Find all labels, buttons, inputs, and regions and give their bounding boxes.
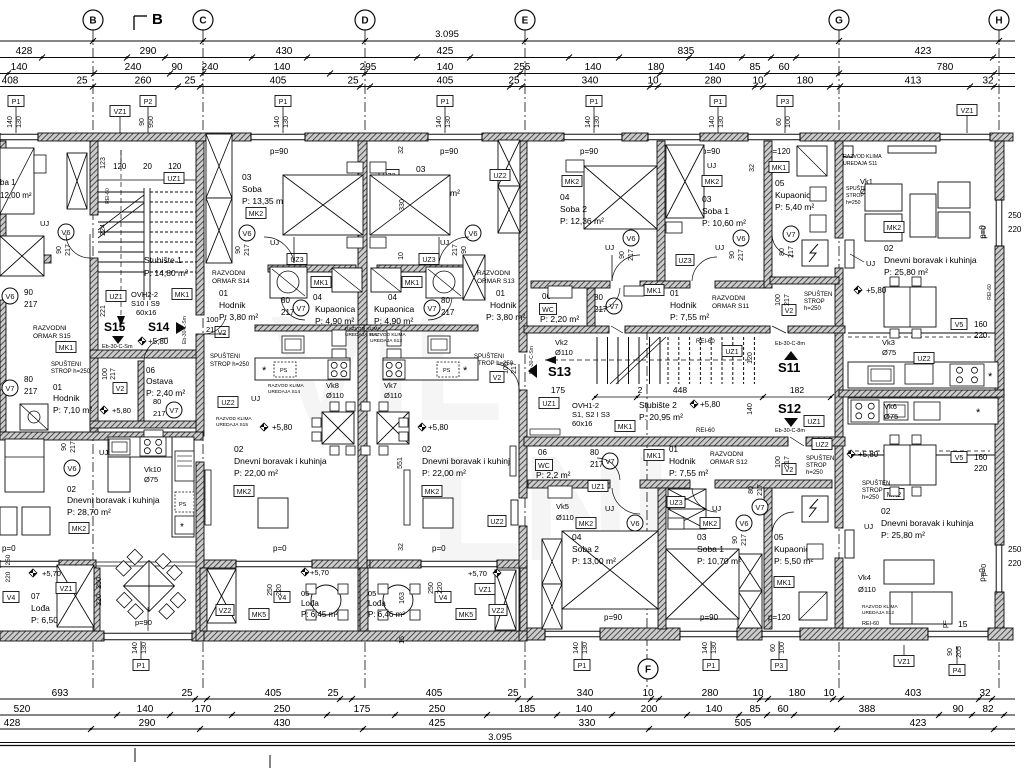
svg-text:MK2: MK2 [249, 211, 264, 218]
svg-text:100: 100 [785, 116, 792, 128]
svg-text:UZ3: UZ3 [678, 258, 691, 265]
svg-text:06: 06 [538, 448, 547, 457]
svg-text:P: 28,70 m²: P: 28,70 m² [67, 507, 111, 517]
svg-text:90: 90 [56, 246, 63, 254]
svg-text:REI-60: REI-60 [987, 284, 993, 300]
svg-text:25: 25 [347, 76, 359, 87]
svg-text:120: 120 [747, 352, 754, 364]
svg-text:Stubište 2: Stubište 2 [639, 400, 677, 410]
svg-text:UJ: UJ [605, 243, 614, 252]
svg-text:UREDAJA S13: UREDAJA S13 [370, 338, 402, 344]
svg-text:388: 388 [859, 704, 876, 715]
svg-text:SPUŠTENI: SPUŠTENI [474, 353, 504, 360]
svg-text:p=90: p=90 [580, 147, 599, 156]
svg-text:425: 425 [437, 46, 454, 57]
svg-text:SPUŠTEN: SPUŠTEN [806, 455, 834, 462]
svg-text:140: 140 [709, 62, 726, 73]
svg-text:P: 14,80 m²: P: 14,80 m² [144, 268, 188, 278]
svg-text:P: 25,80 m²: P: 25,80 m² [881, 530, 925, 540]
svg-text:P: 6,45 m²: P: 6,45 m² [301, 610, 338, 619]
svg-text:UJ: UJ [864, 522, 873, 531]
svg-text:140: 140 [137, 704, 154, 715]
svg-text:UZ2: UZ2 [490, 519, 503, 526]
svg-text:p=120: p=120 [768, 613, 791, 622]
svg-text:03: 03 [697, 532, 707, 542]
svg-text:STROP: STROP [806, 463, 827, 469]
svg-text:130: 130 [141, 642, 148, 654]
svg-text:STROP h=250: STROP h=250 [474, 361, 514, 367]
svg-text:240: 240 [202, 62, 219, 73]
svg-text:02: 02 [884, 243, 894, 253]
svg-text:P: 4,90 m²: P: 4,90 m² [374, 316, 413, 326]
svg-text:ORMAR S15: ORMAR S15 [33, 333, 71, 340]
svg-text:p=0: p=0 [432, 544, 446, 553]
svg-text:P: 6,50: P: 6,50 [31, 615, 58, 625]
svg-text:h=250: h=250 [846, 200, 861, 206]
svg-text:V5: V5 [955, 455, 964, 462]
svg-text:Kupaonica: Kupaonica [775, 190, 815, 200]
svg-text:403: 403 [905, 688, 922, 699]
svg-text:140: 140 [747, 403, 754, 415]
svg-text:MK1: MK1 [314, 280, 329, 287]
svg-text:Dnevni boravak i kuhinja: Dnevni boravak i kuhinja [881, 518, 974, 528]
svg-text:p=0: p=0 [979, 226, 988, 239]
svg-text:217: 217 [244, 244, 251, 256]
svg-text:P1: P1 [137, 663, 146, 670]
svg-text:10: 10 [823, 688, 835, 699]
svg-text:185: 185 [519, 704, 536, 715]
svg-text:120: 120 [168, 162, 182, 171]
svg-text:Soba 1: Soba 1 [697, 544, 724, 554]
svg-text:01: 01 [670, 289, 679, 298]
svg-text:250: 250 [428, 582, 435, 594]
svg-text:80: 80 [24, 375, 33, 384]
svg-text:+5,70: +5,70 [310, 568, 329, 577]
svg-text:140: 140 [709, 116, 716, 128]
svg-text:P: 7,55 m²: P: 7,55 m² [669, 468, 708, 478]
svg-text:430: 430 [274, 718, 291, 729]
svg-text:Eb-30-C-8m: Eb-30-C-8m [775, 428, 805, 434]
svg-text:15: 15 [958, 619, 968, 629]
svg-text:20: 20 [143, 162, 152, 171]
svg-text:OVH2-2: OVH2-2 [131, 290, 158, 299]
svg-text:01: 01 [669, 445, 678, 454]
svg-text:100: 100 [779, 642, 786, 654]
svg-text:VZ1: VZ1 [114, 109, 127, 116]
svg-text:UJ: UJ [715, 243, 724, 252]
svg-text:p=90: p=90 [440, 147, 459, 156]
svg-text:80: 80 [441, 296, 450, 305]
svg-text:25: 25 [184, 76, 196, 87]
svg-text:UREDAJA S15: UREDAJA S15 [216, 422, 248, 428]
svg-text:290: 290 [139, 718, 156, 729]
svg-text:S14: S14 [148, 320, 170, 334]
svg-text:200: 200 [641, 704, 658, 715]
svg-text:Hodnik: Hodnik [490, 300, 517, 310]
svg-text:P1: P1 [578, 663, 587, 670]
svg-text:STROP: STROP [862, 488, 883, 494]
svg-text:RAZVOD KLIMA: RAZVOD KLIMA [862, 604, 899, 610]
svg-text:P: 13,35 m²: P: 13,35 m² [242, 196, 286, 206]
svg-text:UZ1: UZ1 [167, 176, 180, 183]
svg-text:405: 405 [437, 76, 454, 87]
svg-text:Vk4: Vk4 [858, 573, 871, 582]
svg-text:60: 60 [777, 704, 789, 715]
svg-text:B: B [89, 16, 96, 27]
svg-text:Ø75: Ø75 [884, 412, 898, 421]
svg-text:VZ1: VZ1 [898, 659, 911, 666]
svg-text:STROP: STROP [846, 193, 864, 199]
svg-text:G: G [835, 16, 843, 27]
svg-text:VZ2: VZ2 [492, 608, 505, 615]
svg-text:240: 240 [125, 62, 142, 73]
svg-text:+5,70: +5,70 [42, 569, 61, 578]
svg-text:90: 90 [24, 288, 33, 297]
svg-text:340: 340 [577, 688, 594, 699]
svg-text:V4: V4 [439, 595, 448, 602]
svg-text:90: 90 [61, 443, 68, 451]
svg-text:P1: P1 [279, 99, 288, 106]
svg-text:217: 217 [590, 460, 604, 469]
svg-text:V4: V4 [7, 595, 16, 602]
svg-text:Ø75: Ø75 [882, 348, 896, 357]
svg-text:220: 220 [1008, 225, 1022, 234]
svg-text:V2: V2 [116, 386, 125, 393]
svg-text:60: 60 [776, 118, 783, 126]
svg-text:250: 250 [5, 554, 12, 565]
svg-text:413: 413 [905, 76, 922, 87]
svg-text:REI-60: REI-60 [105, 188, 111, 204]
svg-text:MK2: MK2 [565, 179, 580, 186]
svg-text:140: 140 [436, 116, 443, 128]
svg-text:280: 280 [705, 76, 722, 87]
svg-text:90: 90 [952, 704, 964, 715]
svg-text:UREDAJA S12: UREDAJA S12 [862, 610, 894, 616]
svg-text:130: 130 [582, 642, 589, 654]
svg-text:p=: p= [942, 620, 949, 628]
svg-text:V7: V7 [296, 304, 305, 313]
svg-text:140: 140 [437, 62, 454, 73]
svg-text:220: 220 [1008, 559, 1022, 568]
svg-text:Vk2: Vk2 [555, 338, 568, 347]
svg-text:217: 217 [70, 441, 77, 453]
svg-text:h=250: h=250 [804, 306, 822, 312]
svg-text:p=0: p=0 [979, 564, 988, 577]
svg-text:220: 220 [974, 331, 988, 340]
svg-text:Hodnik: Hodnik [219, 300, 246, 310]
svg-text:140: 140 [132, 642, 139, 654]
svg-text:Dnevni boravak i kuhinja: Dnevni boravak i kuhinja [422, 456, 515, 466]
svg-text:VZ2: VZ2 [219, 608, 232, 615]
svg-text:P2: P2 [144, 99, 153, 106]
svg-text:V6: V6 [5, 292, 14, 301]
svg-text:224: 224 [100, 224, 107, 236]
svg-text:90: 90 [235, 246, 242, 254]
svg-text:ORMAR S14: ORMAR S14 [212, 278, 250, 285]
svg-text:Kupaonica: Kupaonica [315, 304, 355, 314]
svg-text:05: 05 [368, 589, 376, 598]
svg-text:250: 250 [429, 704, 446, 715]
svg-text:MK1: MK1 [175, 292, 190, 299]
svg-text:217: 217 [153, 409, 166, 418]
svg-text:90: 90 [729, 251, 736, 259]
svg-text:S11: S11 [778, 360, 800, 375]
svg-text:P: 6,46 m²: P: 6,46 m² [368, 610, 405, 619]
svg-text:MK1: MK1 [618, 424, 633, 431]
svg-text:UJ: UJ [99, 448, 108, 457]
svg-text:Vk7: Vk7 [384, 381, 397, 390]
svg-text:UJ: UJ [707, 161, 716, 170]
svg-text:130: 130 [283, 116, 290, 128]
svg-text:P: 5,40 m²: P: 5,40 m² [775, 202, 814, 212]
svg-text:80: 80 [153, 397, 161, 406]
svg-text:2: 2 [638, 385, 643, 395]
svg-text:S13: S13 [548, 364, 571, 379]
svg-text:520: 520 [14, 704, 31, 715]
svg-text:Dnevni boravak i kuhinja: Dnevni boravak i kuhinja [234, 456, 327, 466]
svg-text:250: 250 [267, 584, 274, 596]
svg-text:120: 120 [113, 162, 127, 171]
svg-text:250: 250 [1008, 211, 1022, 220]
svg-text:V7: V7 [786, 230, 795, 239]
svg-text:RAZVOD KLIMA: RAZVOD KLIMA [268, 383, 305, 389]
svg-text:+5,80: +5,80 [272, 423, 293, 432]
svg-text:10: 10 [398, 252, 405, 260]
svg-text:100: 100 [206, 315, 219, 324]
svg-text:217: 217 [24, 387, 38, 396]
svg-text:220: 220 [96, 594, 103, 606]
svg-text:UJ: UJ [605, 504, 614, 513]
svg-text:E: E [522, 16, 529, 27]
svg-text:Soba 1: Soba 1 [702, 206, 729, 216]
svg-text:330: 330 [399, 199, 406, 211]
svg-text:25: 25 [181, 688, 193, 699]
svg-text:02: 02 [234, 444, 244, 454]
svg-text:140: 140 [274, 62, 291, 73]
svg-text:60x16: 60x16 [136, 308, 156, 317]
svg-text:VZ1: VZ1 [479, 587, 492, 594]
svg-text:130: 130 [445, 116, 452, 128]
svg-text:PS: PS [443, 368, 451, 374]
svg-text:MK2: MK2 [72, 526, 87, 533]
svg-text:H: H [995, 16, 1002, 27]
svg-text:100: 100 [775, 294, 782, 306]
svg-text:04: 04 [313, 293, 322, 302]
svg-text:Soba: Soba [242, 184, 262, 194]
svg-text:60x16: 60x16 [572, 419, 592, 428]
svg-text:MK2: MK2 [237, 489, 252, 496]
svg-text:P: 20,95 m²: P: 20,95 m² [639, 412, 683, 422]
svg-text:140: 140 [274, 116, 281, 128]
svg-text:p=0: p=0 [2, 544, 16, 553]
svg-text:P: 3,80 m²: P: 3,80 m² [486, 312, 525, 322]
svg-text:02: 02 [422, 444, 432, 454]
svg-text:90: 90 [947, 648, 954, 656]
svg-text:Vk3: Vk3 [882, 338, 895, 347]
svg-text:05: 05 [774, 532, 784, 542]
svg-text:Vk10: Vk10 [144, 465, 161, 474]
svg-text:P: 13,00 m²: P: 13,00 m² [572, 556, 616, 566]
svg-text:04: 04 [388, 293, 397, 302]
svg-text:Hodnik: Hodnik [53, 393, 80, 403]
svg-text:MK2: MK2 [887, 225, 902, 232]
svg-text:P3: P3 [775, 663, 784, 670]
svg-text:ORMAR S12: ORMAR S12 [710, 459, 748, 466]
svg-text:UZ1: UZ1 [807, 419, 820, 426]
svg-text:32: 32 [398, 543, 405, 551]
svg-text:25: 25 [507, 688, 519, 699]
svg-text:+5,80: +5,80 [112, 406, 131, 415]
svg-text:V7: V7 [5, 384, 14, 393]
svg-text:130: 130 [718, 116, 725, 128]
svg-text:32: 32 [749, 164, 756, 172]
svg-text:S15: S15 [104, 320, 126, 334]
svg-text:P1: P1 [12, 99, 21, 106]
svg-text:Eb-30-C-Sm: Eb-30-C-Sm [182, 316, 188, 344]
svg-text:P: 12,36 m²: P: 12,36 m² [560, 216, 604, 226]
svg-text:Soba 2: Soba 2 [572, 544, 599, 554]
svg-text:+5,80: +5,80 [428, 423, 449, 432]
svg-text:220: 220 [276, 584, 283, 596]
svg-text:Kupaonica: Kupaonica [374, 304, 414, 314]
svg-text:MK1: MK1 [777, 580, 792, 587]
svg-text:82: 82 [982, 704, 994, 715]
svg-text:03: 03 [242, 172, 252, 182]
svg-text:h=250: h=250 [806, 470, 824, 476]
svg-text:90: 90 [171, 62, 183, 73]
svg-text:250: 250 [1008, 545, 1022, 554]
svg-text:140: 140 [706, 704, 723, 715]
svg-text:221: 221 [100, 305, 107, 317]
svg-text:P1: P1 [441, 99, 450, 106]
svg-text:80: 80 [590, 448, 599, 457]
svg-text:*: * [180, 522, 184, 533]
svg-text:+5,80: +5,80 [866, 286, 887, 295]
svg-text:V6: V6 [736, 234, 745, 243]
svg-text:Ostava: Ostava [146, 376, 173, 386]
svg-text:P4: P4 [953, 668, 962, 675]
svg-text:175: 175 [354, 704, 371, 715]
svg-text:Soba 2: Soba 2 [560, 204, 587, 214]
svg-text:140: 140 [11, 62, 28, 73]
svg-text:UZ3: UZ3 [422, 257, 435, 264]
svg-text:130: 130 [594, 116, 601, 128]
svg-text:295: 295 [360, 62, 377, 73]
svg-text:SPUŠTEN: SPUŠTEN [862, 480, 890, 487]
svg-text:ORMAR S13: ORMAR S13 [477, 278, 515, 285]
svg-text:3.095: 3.095 [435, 29, 459, 40]
svg-text:01: 01 [53, 383, 62, 392]
svg-text:RAZVOD KLIMA: RAZVOD KLIMA [216, 416, 253, 422]
svg-text:ORMAR S11: ORMAR S11 [712, 303, 749, 310]
svg-text:MK2: MK2 [579, 521, 594, 528]
svg-text:Ø110: Ø110 [858, 585, 876, 594]
svg-text:217: 217 [784, 456, 791, 468]
svg-text:P1: P1 [714, 99, 723, 106]
svg-text:Dnevni boravak i kuhinja: Dnevni boravak i kuhinja [884, 255, 977, 265]
svg-text:25: 25 [76, 76, 88, 87]
svg-text:VZ1: VZ1 [60, 586, 73, 593]
svg-text:Vk5: Vk5 [556, 502, 569, 511]
svg-text:Ø110: Ø110 [555, 348, 573, 357]
svg-text:Vk6: Vk6 [884, 402, 897, 411]
svg-text:05: 05 [301, 589, 309, 598]
svg-text:80: 80 [748, 486, 755, 494]
svg-text:217: 217 [110, 368, 117, 380]
svg-text:STROP h=250: STROP h=250 [210, 362, 250, 368]
svg-text:100: 100 [102, 368, 109, 380]
svg-text:Lođa: Lođa [368, 599, 386, 608]
svg-text:MK5: MK5 [252, 612, 267, 619]
svg-text:217: 217 [65, 244, 72, 256]
svg-text:P: 22,00 m²: P: 22,00 m² [234, 468, 278, 478]
svg-text:290: 290 [140, 46, 157, 57]
svg-text:S1, S2 I S3: S1, S2 I S3 [572, 410, 610, 419]
svg-text:330: 330 [579, 718, 596, 729]
svg-text:*: * [463, 365, 468, 377]
svg-text:RAZVOD KLIMA: RAZVOD KLIMA [370, 332, 407, 338]
svg-text:90: 90 [732, 536, 739, 544]
svg-text:V7: V7 [427, 304, 436, 313]
svg-text:V6: V6 [67, 464, 76, 473]
svg-text:182: 182 [790, 385, 804, 395]
svg-text:p=90: p=90 [135, 618, 152, 627]
svg-text:180: 180 [797, 76, 814, 87]
svg-text:405: 405 [426, 688, 443, 699]
svg-text:h=250: h=250 [862, 495, 880, 501]
svg-text:90: 90 [139, 118, 146, 126]
svg-text:60: 60 [770, 644, 777, 652]
svg-text:SPUŠTENI: SPUŠTENI [51, 361, 81, 368]
svg-text:10: 10 [752, 76, 764, 87]
svg-text:V7: V7 [609, 302, 618, 311]
svg-text:REI-60: REI-60 [696, 339, 715, 345]
svg-text:Ø110: Ø110 [384, 391, 402, 400]
svg-text:423: 423 [910, 718, 927, 729]
svg-text:220: 220 [437, 582, 444, 594]
svg-text:250: 250 [274, 704, 291, 715]
svg-text:123: 123 [100, 157, 107, 169]
svg-text:260: 260 [135, 76, 152, 87]
svg-text:RAZVODNI: RAZVODNI [477, 270, 511, 277]
svg-text:280: 280 [702, 688, 719, 699]
svg-text:25: 25 [508, 76, 520, 87]
svg-text:217: 217 [757, 484, 764, 496]
svg-text:03: 03 [702, 194, 712, 204]
svg-text:780: 780 [937, 62, 954, 73]
svg-text:170: 170 [195, 704, 212, 715]
svg-text:Ø110: Ø110 [326, 391, 344, 400]
svg-text:60: 60 [778, 62, 790, 73]
svg-text:163: 163 [399, 592, 406, 604]
svg-text:90: 90 [619, 251, 626, 259]
svg-text:V6: V6 [242, 229, 251, 238]
svg-text:P: 22,00 m²: P: 22,00 m² [422, 468, 466, 478]
svg-text:RAZVOD KLIMA: RAZVOD KLIMA [843, 154, 882, 160]
svg-text:V2: V2 [218, 330, 227, 337]
svg-text:220: 220 [5, 571, 12, 582]
svg-text:V6: V6 [739, 519, 748, 528]
svg-text:UREDAJA S11: UREDAJA S11 [843, 161, 877, 167]
svg-text:p=90: p=90 [270, 147, 289, 156]
svg-text:F: F [645, 665, 651, 676]
svg-text:Eb-30-C-Sm: Eb-30-C-Sm [102, 344, 133, 350]
svg-text:80: 80 [594, 293, 603, 302]
svg-text:02: 02 [881, 506, 891, 516]
svg-text:UZ3: UZ3 [669, 500, 682, 507]
svg-text:217: 217 [628, 249, 635, 261]
svg-text:130: 130 [16, 116, 23, 128]
